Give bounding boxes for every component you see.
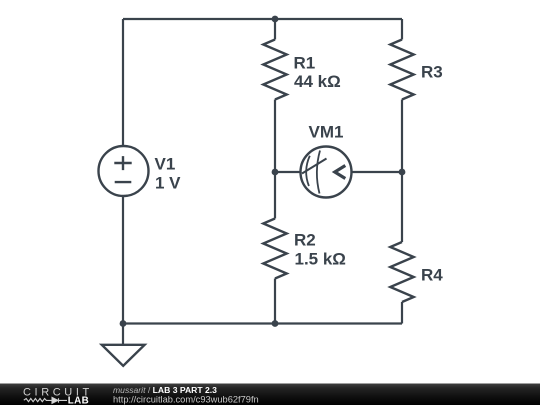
VM1 V glyph	[335, 166, 346, 179]
wire VM1 right lead	[352, 171, 403, 173]
svg-text:1 V: 1 V	[155, 174, 181, 193]
svg-text:1.5 kΩ: 1.5 kΩ	[295, 250, 346, 269]
wire bottom horizontal	[123, 322, 402, 324]
wire left column lower	[122, 196, 124, 345]
logo diode bar and wire	[59, 398, 68, 402]
V1 plus sign	[114, 156, 131, 170]
svg-text:V1: V1	[155, 155, 176, 174]
logo diode	[52, 397, 58, 403]
resistor R4	[390, 242, 413, 302]
VM1 needle	[302, 159, 327, 174]
svg-text:R2: R2	[294, 231, 316, 250]
wire top horizontal	[123, 18, 402, 20]
node dot top middle	[272, 16, 279, 23]
svg-text:http://circuitlab.com/c93wub62: http://circuitlab.com/c93wub62f79fn	[113, 394, 259, 404]
wire right column between R3 and R4	[401, 100, 403, 243]
svg-text:R3: R3	[421, 63, 443, 82]
VM1 gauge arc outer	[317, 151, 320, 194]
wire right column bottom stub	[401, 302, 403, 324]
svg-text:44 kΩ: 44 kΩ	[294, 72, 341, 91]
svg-text:R1: R1	[294, 54, 316, 73]
svg-text:mussarit / LAB 3 PART 2.3: mussarit / LAB 3 PART 2.3	[113, 385, 217, 395]
svg-text:R4: R4	[421, 266, 443, 285]
wire middle column top stub	[274, 19, 276, 40]
wire left column upper	[122, 19, 124, 146]
ground	[102, 345, 145, 366]
wire right column top stub	[401, 19, 403, 40]
V1 minus sign	[115, 181, 132, 183]
VM1 gauge arc inner	[306, 156, 310, 186]
svg-text:VM1: VM1	[309, 123, 344, 142]
voltmeter VM1 circle	[301, 147, 352, 198]
wire middle column bottom stub	[274, 279, 276, 324]
svg-text:LAB: LAB	[68, 396, 89, 405]
voltage source V1 circle	[99, 146, 149, 196]
wire VM1 left lead	[275, 171, 301, 173]
node dot bottom left	[120, 320, 127, 327]
resistor R1	[263, 40, 286, 100]
wire middle column between R1 and R2	[274, 100, 276, 219]
node dot VM left	[272, 169, 279, 176]
logo resistor zigzag	[24, 399, 52, 402]
footer bar	[0, 384, 540, 405]
resistor R3	[390, 40, 413, 100]
node dot VM right	[399, 169, 406, 176]
node dot bottom middle	[272, 320, 279, 327]
resistor R2	[263, 219, 286, 279]
